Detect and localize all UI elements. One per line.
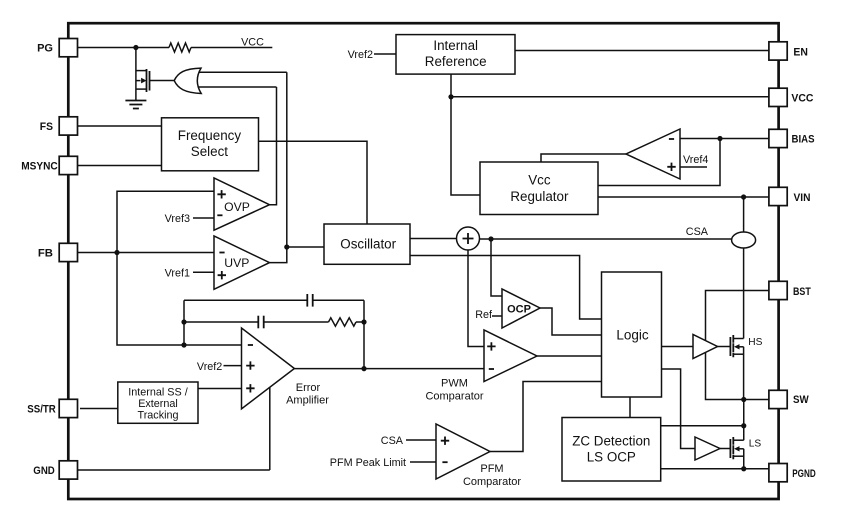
- svg-text:Ref: Ref: [475, 309, 493, 321]
- svg-text:Error: Error: [296, 382, 321, 394]
- svg-text:Tracking: Tracking: [138, 410, 179, 422]
- svg-text:Regulator: Regulator: [510, 189, 569, 204]
- svg-text:CSA: CSA: [381, 435, 404, 447]
- svg-text:Frequency: Frequency: [178, 128, 242, 143]
- svg-text:FB: FB: [38, 248, 53, 260]
- svg-text:Vref2: Vref2: [348, 49, 373, 61]
- svg-text:Vref4: Vref4: [683, 154, 708, 166]
- svg-text:PFM: PFM: [480, 463, 503, 475]
- svg-text:VCC: VCC: [241, 37, 264, 49]
- svg-text:BIAS: BIAS: [792, 134, 815, 146]
- svg-text:EN: EN: [793, 46, 808, 58]
- svg-text:BST: BST: [793, 286, 811, 298]
- svg-text:OCP: OCP: [507, 303, 531, 315]
- svg-text:VCC: VCC: [791, 93, 813, 105]
- svg-text:Vref3: Vref3: [165, 213, 190, 225]
- svg-text:CSA: CSA: [686, 226, 709, 238]
- svg-text:OVP: OVP: [224, 200, 250, 214]
- svg-text:Vref1: Vref1: [165, 268, 190, 280]
- svg-text:ZC Detection: ZC Detection: [572, 434, 650, 449]
- svg-text:Amplifier: Amplifier: [286, 395, 329, 407]
- svg-text:External: External: [138, 398, 178, 410]
- svg-text:Internal SS /: Internal SS /: [128, 387, 187, 399]
- svg-text:Oscillator: Oscillator: [340, 236, 396, 251]
- svg-text:PGND: PGND: [792, 468, 816, 480]
- svg-text:Logic: Logic: [616, 328, 649, 343]
- svg-text:Vcc: Vcc: [528, 173, 551, 188]
- svg-text:LS OCP: LS OCP: [587, 450, 636, 465]
- svg-text:Select: Select: [191, 144, 228, 159]
- svg-text:MSYNC: MSYNC: [21, 161, 58, 173]
- svg-text:PWM: PWM: [441, 378, 468, 390]
- svg-text:Vref2: Vref2: [197, 361, 222, 373]
- svg-text:Reference: Reference: [425, 54, 487, 69]
- svg-text:Comparator: Comparator: [425, 391, 483, 403]
- svg-text:SW: SW: [793, 394, 809, 406]
- svg-text:Comparator: Comparator: [463, 476, 521, 488]
- svg-text:PG: PG: [37, 43, 53, 55]
- svg-text:LS: LS: [749, 438, 762, 449]
- svg-text:GND: GND: [33, 465, 55, 477]
- svg-text:PFM Peak Limit: PFM Peak Limit: [330, 457, 406, 469]
- svg-text:VIN: VIN: [794, 192, 811, 204]
- svg-text:Internal: Internal: [433, 38, 478, 53]
- svg-text:HS: HS: [748, 337, 762, 348]
- svg-text:SS/TR: SS/TR: [27, 404, 56, 416]
- svg-text:UVP: UVP: [224, 256, 249, 270]
- svg-text:FS: FS: [40, 121, 54, 133]
